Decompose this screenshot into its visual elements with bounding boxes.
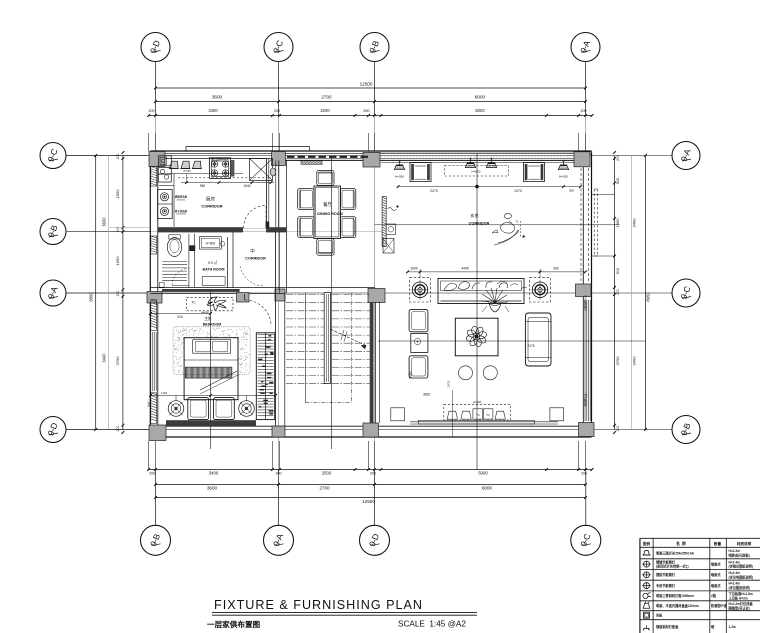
svg-text:3700: 3700: [615, 356, 620, 366]
svg-text:200: 200: [616, 155, 620, 161]
svg-text:TC: TC: [191, 301, 196, 305]
svg-text:2200: 2200: [320, 108, 330, 113]
svg-text:隔墙型(另认定): 隔墙型(另认定): [729, 605, 750, 610]
svg-text:8950: 8950: [89, 292, 94, 302]
svg-text:TV: TV: [486, 413, 490, 417]
svg-text:名 称: 名 称: [676, 541, 686, 546]
svg-text:1102: 1102: [161, 391, 167, 395]
svg-text:3600: 3600: [212, 95, 223, 100]
svg-text:5000: 5000: [475, 108, 485, 113]
svg-text:6000: 6000: [475, 95, 486, 100]
svg-text:(详见电图纸说明): (详见电图纸说明): [729, 574, 753, 579]
svg-text:主卧: 主卧: [204, 316, 212, 321]
svg-text:200: 200: [581, 109, 587, 113]
svg-text:防潮型IP诛: 防潮型IP诛: [711, 603, 728, 608]
svg-text:200: 200: [370, 472, 376, 476]
svg-text:1650: 1650: [115, 256, 120, 266]
svg-text:2175: 2175: [527, 344, 534, 348]
svg-text:下沿板高H=1.8m: 下沿板高H=1.8m: [729, 591, 753, 596]
svg-text:钢玻铝材灯座盒: 钢玻铝材灯座盒: [656, 624, 679, 629]
svg-text:锂铝节能筒灯: 锂铝节能筒灯: [656, 572, 676, 577]
svg-text:H=2.4m: H=2.4m: [729, 582, 741, 586]
svg-text:锂镀节能筒灯: 锂镀节能筒灯: [656, 559, 676, 564]
svg-text:980: 980: [200, 184, 206, 188]
svg-text:4445: 4445: [461, 266, 469, 270]
svg-text:2500: 2500: [322, 471, 332, 476]
svg-text:滚筒洗衣机: 滚筒洗衣机: [175, 195, 188, 199]
svg-text:暗装式: 暗装式: [711, 583, 721, 588]
svg-text:920: 920: [616, 178, 620, 184]
svg-text:1.2m: 1.2m: [729, 625, 736, 629]
svg-text:3400: 3400: [632, 218, 637, 228]
svg-text:H=2.4m: H=2.4m: [729, 560, 741, 564]
svg-text:餐厅: 餐厅: [323, 201, 332, 208]
svg-text:(详细见图纸说明): (详细见图纸说明): [729, 564, 753, 569]
svg-text:暗装(钻孔面板): 暗装(钻孔面板): [729, 553, 750, 558]
svg-text:(详见图纸说明): (详见图纸说明): [729, 585, 750, 590]
svg-text:BEDROOM: BEDROOM: [203, 323, 221, 327]
svg-text:200: 200: [116, 154, 120, 160]
svg-text:中: 中: [250, 248, 255, 255]
svg-text:3700: 3700: [115, 356, 120, 366]
svg-text:推拉门: 推拉门: [147, 399, 151, 407]
svg-text:500: 500: [363, 109, 369, 113]
svg-text:3400: 3400: [632, 356, 637, 366]
svg-text:数量: 数量: [713, 541, 722, 546]
svg-text:2700: 2700: [321, 95, 332, 100]
svg-text:12500: 12500: [360, 82, 373, 87]
svg-text:500: 500: [569, 188, 574, 192]
svg-text:200: 200: [149, 472, 155, 476]
svg-text:510: 510: [616, 268, 620, 274]
svg-text:3400: 3400: [208, 108, 218, 113]
svg-text:H=350: H=350: [395, 175, 404, 179]
svg-text:3400: 3400: [102, 353, 107, 363]
svg-text:3600: 3600: [207, 486, 218, 491]
svg-text:5000: 5000: [478, 471, 488, 476]
svg-text:(来回式开关控制—式1): (来回式开关控制—式1): [656, 564, 689, 569]
svg-text:6000: 6000: [482, 486, 493, 491]
svg-text:1676: 1676: [447, 380, 451, 387]
svg-text:2路: 2路: [711, 593, 717, 598]
svg-text:防水铺轴辅: 防水铺轴辅: [584, 394, 588, 407]
svg-text:图例: 图例: [643, 541, 651, 546]
svg-text:灰板: 灰板: [656, 612, 663, 617]
svg-text:防水铺轴辅料: 防水铺轴辅料: [584, 295, 588, 311]
svg-text:2270: 2270: [430, 189, 438, 193]
svg-text:H=250: H=250: [559, 175, 568, 179]
svg-text:明装、半直式器材盒盒110mm: 明装、半直式器材盒盒110mm: [656, 603, 699, 608]
svg-text:H=600: H=600: [201, 311, 209, 315]
svg-text:专用节能筒灯: 专用节能筒灯: [656, 583, 676, 588]
svg-text:明装三路开关25A/250/10A: 明装三路开关25A/250/10A: [656, 550, 695, 555]
svg-text:200: 200: [616, 426, 620, 432]
svg-text:2470: 2470: [514, 189, 522, 193]
svg-text:800x650: 800x650: [177, 199, 186, 201]
svg-text:200: 200: [274, 109, 280, 113]
svg-text:暗装式: 暗装式: [711, 572, 721, 577]
svg-text:8950: 8950: [646, 292, 651, 302]
svg-text:FIXTURE & FURNISHING PLAN: FIXTURE & FURNISHING PLAN: [214, 598, 423, 612]
svg-text:明装三脊斜射灯箱 Ø90mm: 明装三脊斜射灯箱 Ø90mm: [656, 593, 694, 598]
svg-text:3826: 3826: [423, 392, 430, 396]
svg-text:1300: 1300: [615, 218, 620, 228]
svg-text:3600: 3600: [102, 217, 107, 227]
svg-text:H=600: H=600: [473, 400, 482, 404]
svg-text:一层家俱布置图: 一层家俱布置图: [207, 619, 261, 629]
svg-text:3080: 3080: [409, 371, 413, 378]
svg-text:SCALE 1:45 @A2: SCALE 1:45 @A2: [398, 620, 466, 629]
svg-text:200: 200: [616, 289, 620, 295]
svg-text:200: 200: [116, 426, 120, 432]
svg-text:H=750: H=750: [183, 170, 191, 173]
svg-text:1950: 1950: [115, 189, 120, 199]
svg-text:916: 916: [177, 315, 183, 319]
svg-text:TC: TC: [476, 413, 480, 417]
svg-text:材质说明: 材质说明: [736, 541, 752, 546]
svg-text:200: 200: [116, 291, 120, 297]
svg-text:暗装式: 暗装式: [711, 561, 721, 566]
svg-text:2700: 2700: [319, 486, 330, 491]
svg-text:CORRIDOR: CORRIDOR: [469, 221, 490, 225]
svg-text:CORRIDOR: CORRIDOR: [201, 204, 222, 209]
svg-text:990: 990: [553, 266, 559, 270]
svg-text:H=2.2m: H=2.2m: [729, 549, 741, 553]
svg-text:H=800: H=800: [206, 242, 216, 246]
svg-text:H=600: H=600: [472, 169, 481, 173]
svg-text:200: 200: [149, 109, 155, 113]
svg-text:1640: 1640: [243, 184, 250, 188]
svg-text:烘干洗衣机: 烘干洗衣机: [175, 209, 188, 213]
svg-text:1600: 1600: [410, 266, 418, 270]
svg-text:12500: 12500: [362, 499, 375, 504]
svg-text:上沿板 H=2m: 上沿板 H=2m: [729, 595, 748, 600]
svg-text:H=2.2m灯位线盒: H=2.2m灯位线盒: [729, 601, 754, 606]
svg-text:H=2.4m: H=2.4m: [729, 571, 741, 575]
svg-text:1000x650: 1000x650: [176, 214, 186, 216]
svg-text:玄关: 玄关: [470, 212, 478, 219]
svg-text:CORRIDOR: CORRIDOR: [245, 257, 266, 261]
svg-text:BATH ROOM: BATH ROOM: [203, 268, 225, 272]
svg-text:DINING ROOM: DINING ROOM: [317, 212, 342, 216]
svg-text:9.3 ㎡: 9.3 ㎡: [208, 260, 218, 265]
svg-text:3400: 3400: [209, 471, 219, 476]
svg-text:厨房: 厨房: [206, 196, 216, 203]
